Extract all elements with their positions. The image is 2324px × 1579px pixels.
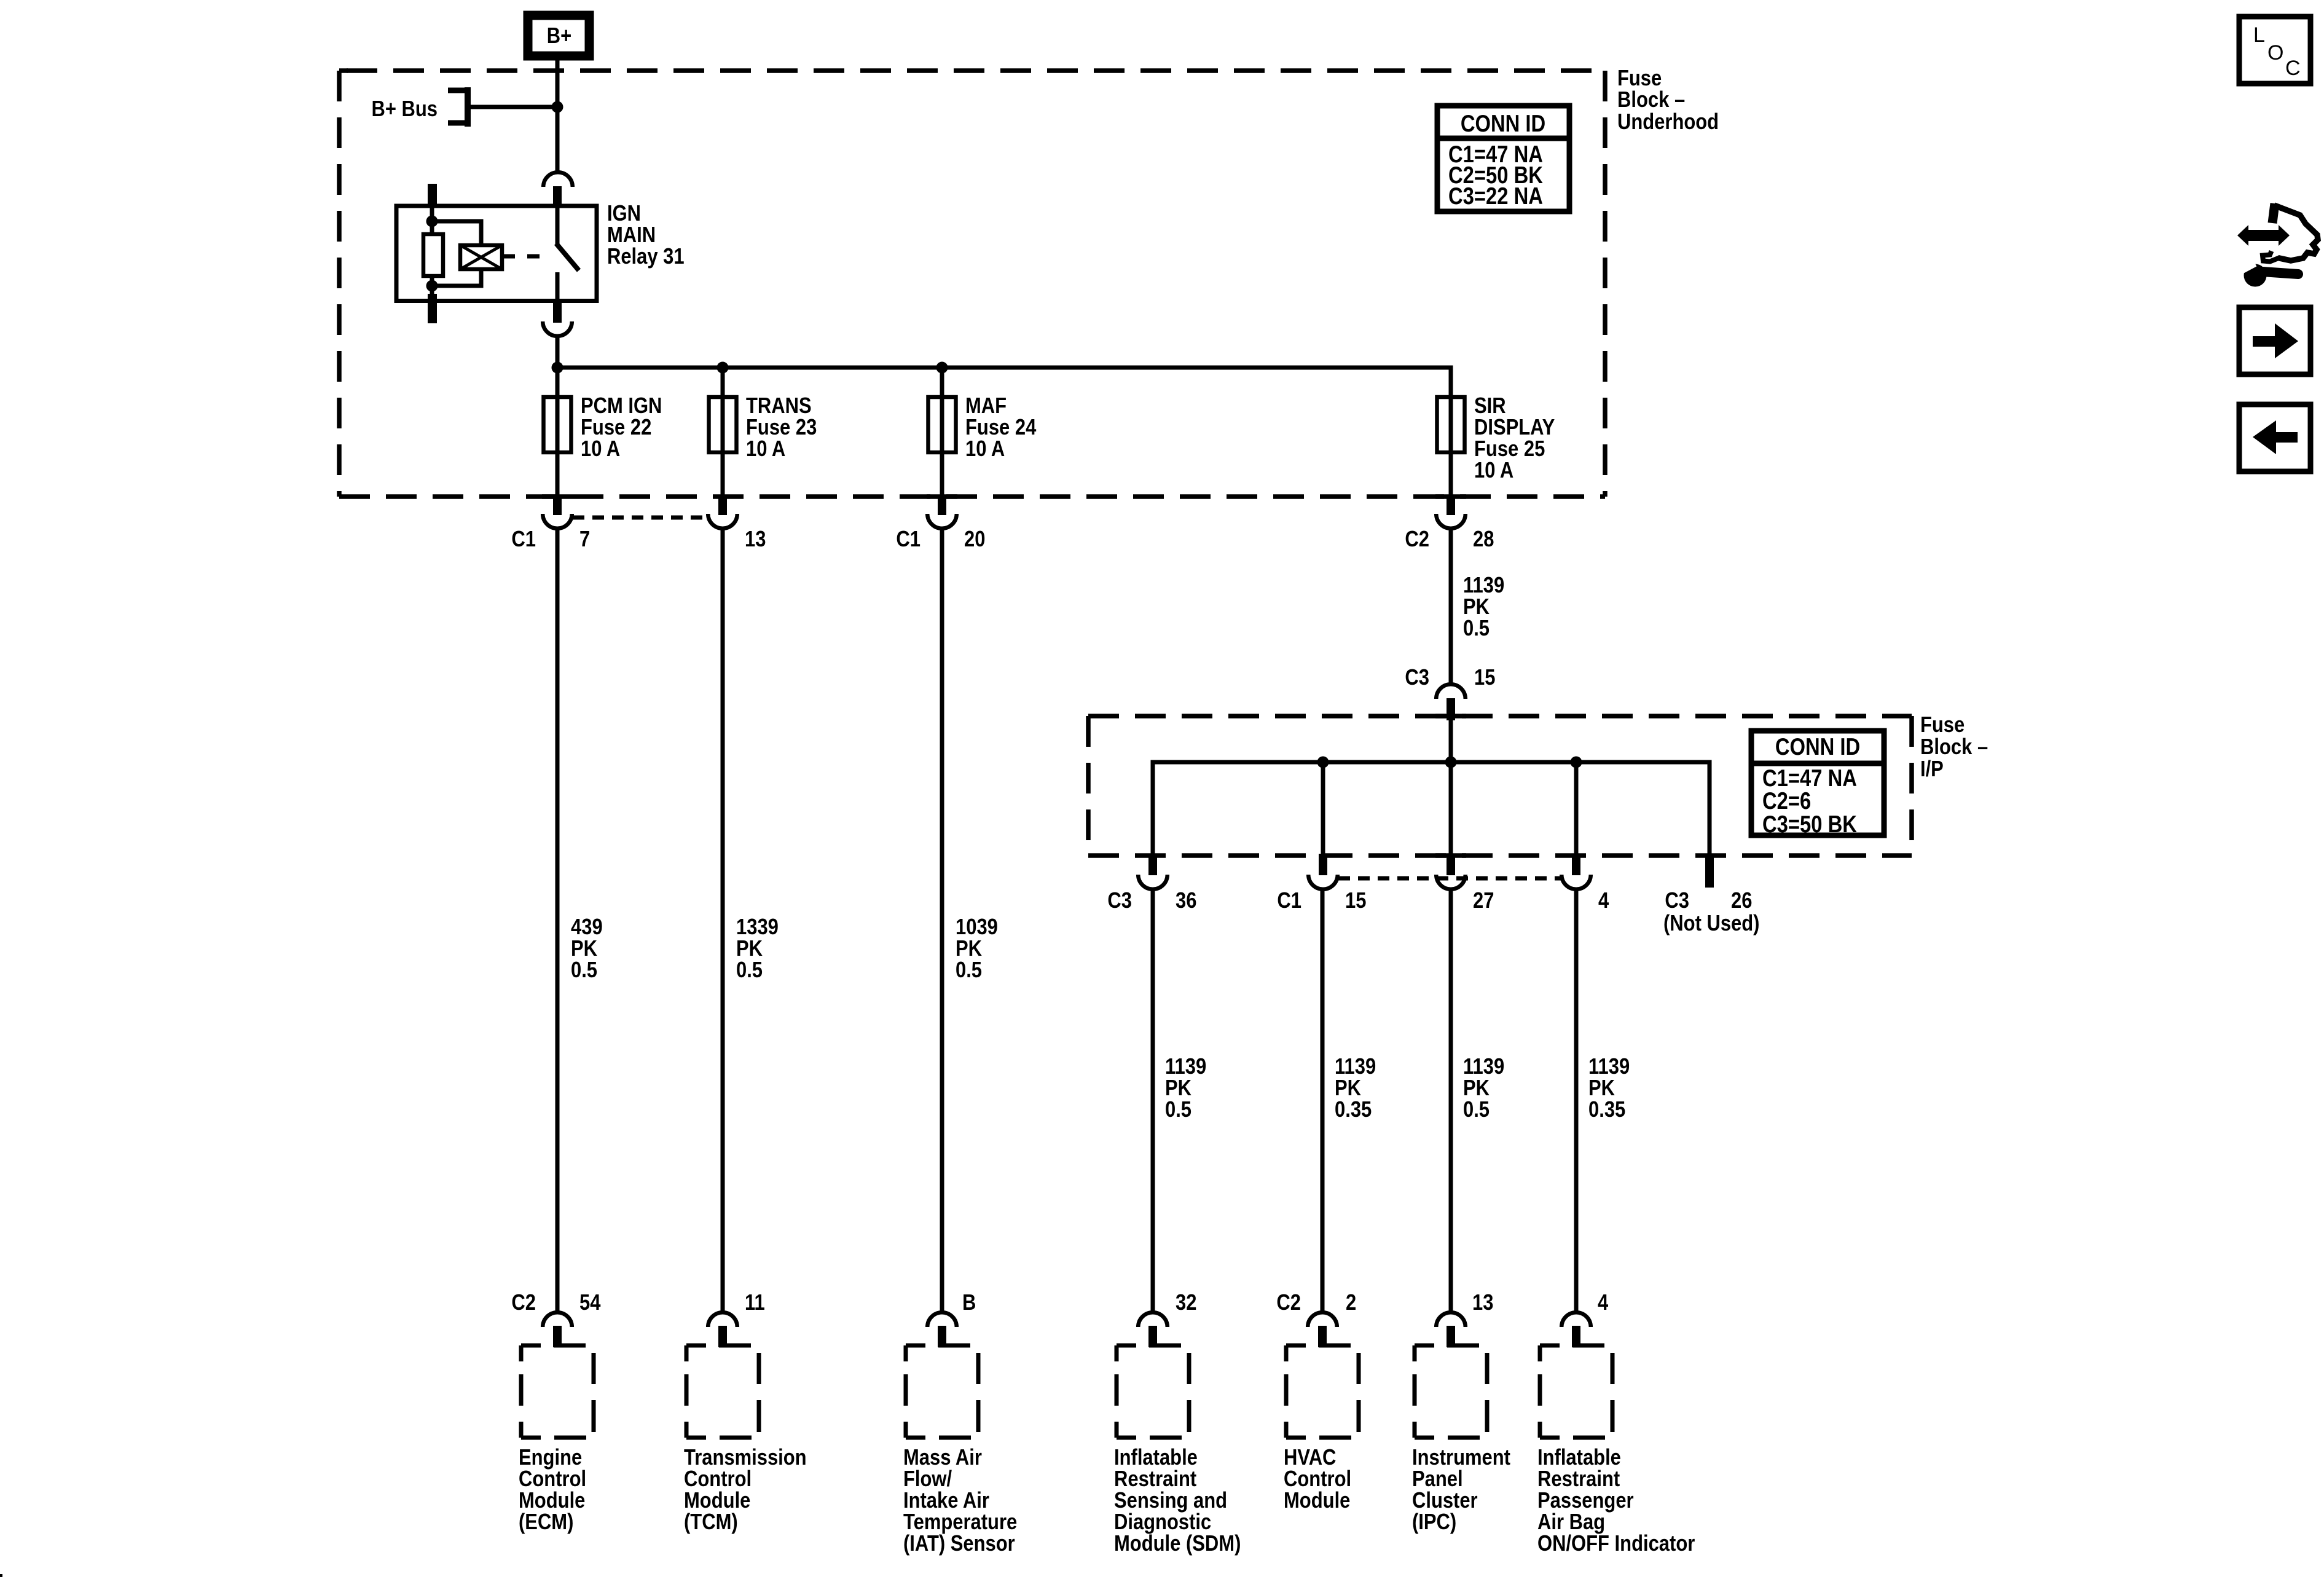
SDM label xyxy=(1114,1444,1241,1556)
module connector C2 pin 2 xyxy=(1276,1290,1356,1347)
wire bus to fuse 23 xyxy=(721,368,725,397)
svg-text:O: O xyxy=(2267,41,2283,65)
relay IGN MAIN Relay 31 box xyxy=(396,206,597,301)
CONN ID table underhood xyxy=(1437,106,1569,211)
svg-text:20: 20 xyxy=(964,526,985,551)
wire B+ Bus to junction xyxy=(471,105,557,109)
connector C3 pin 36 xyxy=(1107,854,1196,913)
connector pin 27 xyxy=(1436,854,1494,913)
fuse 25 label xyxy=(1474,393,1555,482)
svg-text:54: 54 xyxy=(579,1290,600,1315)
connector C1 pin 15 lower xyxy=(1277,854,1366,913)
SDM box xyxy=(1117,1345,1189,1438)
svg-text:C3=50 BK: C3=50 BK xyxy=(1762,811,1857,838)
svg-text:C1: C1 xyxy=(511,526,536,551)
connector pin 4 xyxy=(1561,854,1609,913)
svg-text:10 A: 10 A xyxy=(581,436,620,461)
connector C2 pin 28 xyxy=(1405,495,1494,551)
svg-text:13: 13 xyxy=(745,526,766,551)
fuse block IP border xyxy=(1088,716,1912,856)
wire 1339 PK TCM xyxy=(721,529,725,1311)
svg-text:CONN ID: CONN ID xyxy=(1461,111,1545,137)
wire coil loop bottom xyxy=(432,269,481,286)
air bag indicator box xyxy=(1540,1345,1612,1438)
svg-text:10 A: 10 A xyxy=(965,436,1005,461)
relay output connector arc xyxy=(543,321,572,336)
panel outline xyxy=(2274,205,2318,261)
ECM label xyxy=(519,1444,586,1534)
relay switch xyxy=(556,206,579,301)
svg-text:0.5: 0.5 xyxy=(736,957,763,982)
svg-text:C: C xyxy=(2285,57,2301,80)
svg-text:11: 11 xyxy=(745,1290,765,1315)
page corner mark xyxy=(0,1574,2,1577)
wire 439 PK ECM xyxy=(555,529,560,1311)
relay coil branch wire xyxy=(430,206,434,237)
relay coil top pin stub xyxy=(428,184,437,207)
svg-text:15: 15 xyxy=(1474,664,1495,690)
HVAC label xyxy=(1284,1444,1351,1513)
svg-text:C2: C2 xyxy=(1276,1290,1301,1315)
panel outline hook xyxy=(2263,251,2279,262)
wire relay to bus xyxy=(555,337,560,397)
svg-text:C3: C3 xyxy=(1107,888,1132,913)
svg-text:7: 7 xyxy=(579,526,590,551)
svg-text:Block –: Block – xyxy=(1617,87,1685,112)
LOC icon box xyxy=(2239,17,2310,84)
svg-text:4: 4 xyxy=(1598,888,1609,913)
connector link dashes C1 xyxy=(573,516,708,520)
module connector pin 32 xyxy=(1138,1290,1196,1347)
wire B+ down to relay xyxy=(555,60,560,173)
wire 1139 PK indicator xyxy=(1574,890,1579,1311)
svg-text:2: 2 xyxy=(1346,1290,1356,1315)
node relay coil top xyxy=(426,216,438,227)
svg-text:Fuse: Fuse xyxy=(1920,712,1965,737)
wire label 1139 PK 0.35 indicator xyxy=(1588,1053,1630,1122)
border dash at C3 15 entry xyxy=(1435,714,1466,719)
relay coil bottom pin stub xyxy=(428,294,437,323)
svg-text:(IAT) Sensor: (IAT) Sensor xyxy=(903,1530,1015,1556)
svg-text:0.35: 0.35 xyxy=(1588,1097,1625,1122)
MAF label xyxy=(903,1444,1017,1556)
module connector C2 pin 54 xyxy=(511,1290,600,1347)
MAF IAT sensor box xyxy=(906,1345,978,1438)
fuse 22 PCM IGN xyxy=(544,397,571,497)
wire label 439 PK 0.5 xyxy=(571,914,603,982)
ignition feed bus xyxy=(557,368,1451,397)
connector pin 13 xyxy=(708,495,766,551)
Fuse Block - Underhood label xyxy=(1617,65,1719,134)
svg-text:C2: C2 xyxy=(511,1290,536,1315)
indicator label xyxy=(1537,1444,1695,1556)
connector C1 pin 20 xyxy=(896,495,985,551)
connector link dashes IP xyxy=(1338,876,1561,881)
node bus fuse 23 xyxy=(717,362,729,374)
svg-text:32: 32 xyxy=(1176,1290,1196,1315)
wire IP branch C1-15 xyxy=(1321,762,1325,856)
svg-text:0.5: 0.5 xyxy=(1463,1097,1490,1122)
svg-text:C2: C2 xyxy=(1405,526,1429,551)
svg-text:0.5: 0.5 xyxy=(956,957,982,982)
svg-text:36: 36 xyxy=(1176,888,1196,913)
svg-text:C1: C1 xyxy=(1277,888,1301,913)
svg-text:B+ Bus: B+ Bus xyxy=(372,96,438,121)
svg-text:26: 26 xyxy=(1731,888,1752,913)
svg-text:0.5: 0.5 xyxy=(1463,615,1490,640)
svg-text:27: 27 xyxy=(1473,888,1494,913)
node relay coil bottom xyxy=(426,280,438,292)
wire label 1139 PK 0.35 HVAC xyxy=(1335,1053,1376,1122)
module connector pin 4 xyxy=(1561,1290,1608,1347)
svg-text:I/P: I/P xyxy=(1920,756,1944,781)
fuse 25 SIR DISPLAY xyxy=(1437,397,1465,497)
connector C3 pin 26 not used xyxy=(1663,854,1760,935)
svg-text:(Not Used): (Not Used) xyxy=(1663,910,1760,935)
fuse 24 MAF xyxy=(928,397,956,497)
node IP bus 4 xyxy=(1571,757,1582,768)
forward arrow icon box xyxy=(2239,307,2310,374)
wire label 1039 PK 0.5 xyxy=(956,914,998,982)
relay coil element xyxy=(460,245,502,269)
Instrument Panel Cluster box xyxy=(1415,1345,1487,1438)
Transmission Control Module box xyxy=(686,1345,759,1438)
relay label xyxy=(607,200,685,269)
wire 1139 PK HVAC xyxy=(1321,890,1325,1311)
svg-text:(ECM): (ECM) xyxy=(519,1509,573,1534)
svg-text:(IPC): (IPC) xyxy=(1412,1509,1456,1534)
border dash at fuse 22 connector xyxy=(542,494,573,499)
svg-text:C3: C3 xyxy=(1665,888,1689,913)
svg-text:Underhood: Underhood xyxy=(1617,109,1719,134)
svg-text:C3=22 NA: C3=22 NA xyxy=(1448,183,1543,210)
relay linkage dashed line xyxy=(503,254,552,259)
node IP bus 27 xyxy=(1445,757,1457,768)
double arrow xyxy=(2237,225,2290,246)
svg-text:B+: B+ xyxy=(547,23,571,48)
wire coil loop top xyxy=(432,221,481,245)
wire 1139 PK SIR xyxy=(1449,529,1453,683)
component locator icon (arrow wrench) xyxy=(2232,203,2318,287)
border dash at pin 27 exit xyxy=(1435,853,1466,858)
panel outline left bar xyxy=(2272,203,2275,223)
svg-text:Module (SDM): Module (SDM) xyxy=(1114,1530,1241,1556)
Engine Control Module box xyxy=(521,1345,594,1438)
module connector pin B xyxy=(927,1290,976,1347)
resistor in relay xyxy=(423,234,443,276)
CONN ID table IP xyxy=(1751,731,1884,838)
fuse 23 label xyxy=(746,393,817,461)
wire 1139 PK IPC xyxy=(1449,890,1453,1311)
module connector pin 11 xyxy=(708,1290,765,1347)
svg-text:10 A: 10 A xyxy=(1474,457,1513,482)
TCM label xyxy=(684,1444,807,1534)
IP internal bus xyxy=(1153,762,1710,856)
wire into IP block xyxy=(1449,720,1453,762)
relay input pin stub xyxy=(553,186,562,207)
svg-text:(TCM): (TCM) xyxy=(684,1509,738,1534)
svg-text:10 A: 10 A xyxy=(746,436,785,461)
wire 1039 PK MAF xyxy=(940,529,944,1311)
svg-text:4: 4 xyxy=(1598,1290,1608,1315)
IPC label xyxy=(1412,1444,1510,1534)
wire IP branch 4 xyxy=(1574,762,1579,856)
svg-text:Block –: Block – xyxy=(1920,734,1988,759)
svg-text:0.35: 0.35 xyxy=(1335,1097,1372,1122)
node bus left xyxy=(552,362,563,374)
wire label 1139 PK 0.5 xyxy=(1463,572,1504,640)
svg-text:L: L xyxy=(2253,23,2265,47)
svg-text:13: 13 xyxy=(1472,1290,1493,1315)
wire IP branch 27 xyxy=(1449,762,1453,856)
back arrow icon box xyxy=(2239,404,2310,471)
border dash at fuse 25 connector xyxy=(1435,494,1466,499)
module connector pin 13 xyxy=(1436,1290,1493,1347)
svg-text:15: 15 xyxy=(1345,888,1366,913)
HVAC Control Module box xyxy=(1286,1345,1359,1438)
wrench xyxy=(2244,264,2267,287)
svg-text:CONN ID: CONN ID xyxy=(1775,734,1860,760)
node bus fuse 24 xyxy=(936,362,948,374)
wire label 1139 PK 0.5 IPC xyxy=(1463,1053,1504,1122)
svg-text:Module: Module xyxy=(1284,1487,1350,1513)
wire 1139 PK SDM xyxy=(1151,890,1155,1311)
B+ power terminal box xyxy=(528,15,589,56)
svg-text:0.5: 0.5 xyxy=(571,957,597,982)
relay output pin stub xyxy=(553,301,562,323)
connector C3 pin 15 xyxy=(1405,664,1495,720)
node IP bus C1-15 xyxy=(1317,757,1329,768)
svg-text:28: 28 xyxy=(1473,526,1494,551)
svg-text:C2=6: C2=6 xyxy=(1762,788,1811,814)
fuse 23 TRANS xyxy=(709,397,737,497)
wire bus to fuse 24 xyxy=(940,368,944,397)
svg-text:Relay 31: Relay 31 xyxy=(607,243,685,269)
node B+ bus junction xyxy=(552,101,563,113)
wire label 1339 PK 0.5 xyxy=(736,914,779,982)
relay input connector arc xyxy=(543,172,573,187)
fuse block underhood border xyxy=(339,71,1605,497)
svg-text:0.5: 0.5 xyxy=(1165,1097,1191,1122)
fuse 22 label xyxy=(581,393,662,461)
svg-text:ON/OFF Indicator: ON/OFF Indicator xyxy=(1537,1530,1695,1556)
B+ Bus tap bracket xyxy=(448,87,468,127)
border dash at fuse 24 connector xyxy=(927,494,957,499)
fuse 24 label xyxy=(965,393,1036,461)
connector C1 pin 7 xyxy=(511,495,590,551)
svg-text:C1: C1 xyxy=(896,526,921,551)
svg-text:C3: C3 xyxy=(1405,664,1429,690)
wire label 1139 PK 0.5 SDM xyxy=(1165,1053,1206,1122)
Fuse Block - IP label xyxy=(1920,712,1988,781)
svg-text:B: B xyxy=(962,1290,976,1315)
